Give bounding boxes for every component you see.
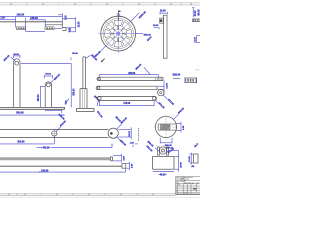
actuator beam bbox=[0, 129, 108, 137]
stud D26 bbox=[173, 74, 197, 83]
svg-text:250.00: 250.00 bbox=[74, 88, 76, 96]
right edge mid detail bbox=[195, 36, 201, 43]
svg-text:20.00: 20.00 bbox=[160, 11, 166, 13]
pulley labels bbox=[146, 141, 175, 154]
stand: dim 500.00 under base bbox=[0, 112, 65, 116]
svg-text:‒40.00‒: ‒40.00‒ bbox=[158, 173, 167, 176]
dimension 5.00 vertical at rail end bbox=[58, 15, 67, 20]
wheel lower-left leader bbox=[95, 45, 107, 58]
post: upper rod bbox=[83, 57, 86, 89]
dimension 190.00 over rail bbox=[0, 13, 62, 27]
svg-text:400.00: 400.00 bbox=[42, 147, 50, 150]
dim 20.00 right of eye bbox=[119, 127, 132, 139]
svg-text:12.00: 12.00 bbox=[167, 82, 169, 88]
handwheel spoke cutouts bbox=[105, 20, 132, 47]
pulley bracket detail bbox=[153, 147, 174, 169]
svg-text:S 5:1: S 5:1 bbox=[196, 69, 200, 71]
post: base flange bbox=[77, 108, 94, 111]
leader D10 bar3 right bbox=[155, 100, 164, 110]
dim 160.00 over bar1 bbox=[99, 63, 158, 77]
small cylinder part right bbox=[189, 143, 199, 168]
eye leaders bbox=[117, 117, 129, 147]
svg-text:25.00: 25.00 bbox=[78, 21, 80, 27]
dim 12.00 right of bar2 bbox=[158, 81, 169, 95]
svg-text:12.00: 12.00 bbox=[195, 36, 197, 42]
svg-text:5.00: 5.00 bbox=[65, 15, 67, 20]
vertical bar top-right bbox=[160, 15, 167, 58]
slide block circle view bbox=[154, 115, 178, 139]
stand: medium column bbox=[45, 82, 51, 108]
title block bbox=[176, 177, 201, 195]
stand: dim 250.00 bbox=[21, 63, 76, 107]
tick near 400 dim bbox=[132, 145, 134, 148]
stand: leader D20 base bbox=[45, 110, 65, 121]
svg-text:170.00: 170.00 bbox=[123, 103, 131, 105]
dim 400.00 bbox=[37, 144, 113, 150]
leader D40 circle view bbox=[173, 107, 185, 120]
svg-text:50.00: 50.00 bbox=[45, 73, 51, 75]
bolt circle detail bbox=[158, 89, 175, 106]
svg-text:1/1: 1/1 bbox=[184, 193, 186, 195]
handwheel centerlines bbox=[99, 14, 138, 53]
dim 170.00 under bar3 bbox=[99, 101, 154, 106]
datum flag on wheel top bbox=[117, 10, 122, 21]
dimension 1.50 left bbox=[0, 18, 16, 20]
top-right bar dim 20.00 bbox=[160, 11, 167, 15]
leader D10 bar3 left bbox=[96, 101, 103, 119]
dim 40.00 under block bbox=[153, 171, 174, 176]
svg-text:50.00: 50.00 bbox=[72, 53, 78, 55]
post: leader top right bbox=[86, 55, 98, 62]
stand: leader D20 tall column bbox=[4, 55, 16, 62]
small dim near stud bbox=[130, 142, 138, 144]
flat bar (edge view) bbox=[0, 157, 113, 161]
dims under circle view bbox=[160, 138, 174, 150]
handwheel rim inner bbox=[103, 18, 133, 48]
dashed stud right of eye bbox=[138, 128, 140, 141]
post: lower tube bbox=[80, 89, 87, 109]
svg-text:500.00: 500.00 bbox=[16, 112, 24, 115]
svg-text:20.00: 20.00 bbox=[195, 10, 197, 16]
dim 200.00 bbox=[0, 136, 54, 144]
sheet top zone band bbox=[0, 3, 200, 6]
rod-end eye bbox=[108, 128, 118, 138]
svg-text:30.00: 30.00 bbox=[13, 54, 19, 56]
svg-text:190.00: 190.00 bbox=[17, 13, 25, 16]
section arrow below wheel bbox=[101, 59, 104, 62]
stand: dim 30.00 bbox=[13, 54, 20, 58]
dim 150.00 bbox=[0, 169, 126, 173]
stand: leader D20 medium column bbox=[50, 74, 61, 84]
handwheel hub bbox=[114, 29, 123, 38]
svg-text:16.00: 16.00 bbox=[189, 156, 191, 162]
stand: dim 50.00 bbox=[44, 73, 52, 78]
dimension 8.00 step bbox=[54, 27, 75, 32]
dim right of strip bbox=[126, 162, 133, 170]
svg-text:20.00: 20.00 bbox=[181, 162, 183, 168]
carriage block A bbox=[16, 27, 25, 30]
svg-text:20.00: 20.00 bbox=[129, 130, 131, 136]
top right corner part bbox=[192, 19, 200, 23]
stand: base plate bbox=[0, 107, 65, 109]
top right corner detail dims bbox=[192, 8, 200, 18]
dim 15.00 near vertical bar bbox=[153, 25, 160, 29]
dimension 25.00 right of rail bbox=[63, 17, 80, 32]
svg-text:Ø20.00: Ø20.00 bbox=[165, 145, 173, 147]
link bar 1 bbox=[97, 77, 163, 80]
svg-text:Ø8.00: Ø8.00 bbox=[199, 9, 200, 16]
title block text bbox=[176, 176, 199, 195]
handwheel outer circle bbox=[101, 16, 136, 51]
mid hole with crosshair bbox=[51, 120, 67, 137]
stand: dim 130.00 bbox=[38, 86, 45, 107]
rail main line bbox=[0, 21, 62, 23]
svg-text:130.00: 130.00 bbox=[38, 94, 40, 102]
thin strip (edge view) bbox=[0, 164, 126, 169]
carriage block B bbox=[45, 27, 54, 30]
dimension 135.00 bbox=[26, 17, 46, 31]
stand: tall column bbox=[14, 59, 20, 108]
sheet bottom zone band bbox=[0, 194, 200, 198]
svg-text:Ø26.00: Ø26.00 bbox=[173, 74, 181, 76]
dim 8.00 right of circle view bbox=[176, 122, 185, 133]
dim 5.00 end of flat bar bbox=[113, 154, 126, 163]
link bar 3 bbox=[97, 96, 157, 100]
dim 20.00 right of block bbox=[168, 151, 183, 172]
rail bottom edge right portion bbox=[45, 22, 66, 31]
dimension right of wheel bbox=[136, 34, 152, 37]
dimension D150 wheel leader bbox=[131, 10, 148, 21]
link bar 2 bbox=[96, 86, 157, 90]
svg-text:200.00: 200.00 bbox=[17, 140, 25, 143]
